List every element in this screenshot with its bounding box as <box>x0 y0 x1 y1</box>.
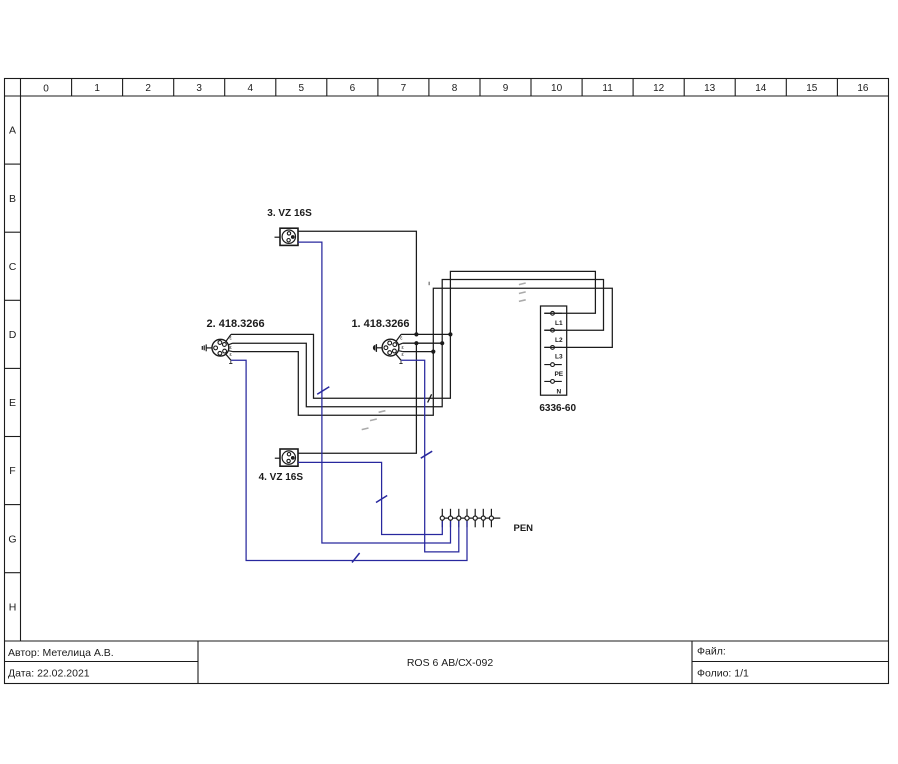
wire connector X1 pin C line <box>403 351 434 353</box>
connector X1 plug symbol <box>373 344 382 352</box>
terminal PE <box>544 363 562 367</box>
svg-text:Автор: Метелица А.В.: Автор: Метелица А.В. <box>8 647 114 659</box>
svg-text:Фолио: 1/1: Фолио: 1/1 <box>697 668 749 680</box>
terminal L3 <box>544 346 562 350</box>
wire neutral connector X2 to PEN (blue) <box>231 360 467 560</box>
svg-text:14: 14 <box>755 83 767 94</box>
svg-text:6: 6 <box>350 83 356 94</box>
wire neutral connector X1 to PEN (blue) <box>401 360 459 552</box>
svg-text:PE: PE <box>554 371 563 378</box>
connector X1 pin stubs <box>396 334 403 360</box>
svg-text:10: 10 <box>551 83 563 94</box>
connector X1 (1. 418.3266) <box>382 339 399 356</box>
terminal N <box>544 380 562 384</box>
svg-text:11: 11 <box>602 83 613 94</box>
svg-text:G: G <box>8 533 16 545</box>
connector X1 tiny pin marks <box>400 336 404 359</box>
socket X4 (4. VZ 16S) <box>275 449 298 466</box>
wire-count slash on X2 neutral <box>352 553 360 563</box>
svg-text:5: 5 <box>299 83 305 94</box>
wire neutral socket X3 to PEN (blue) <box>298 242 451 543</box>
title block texts <box>8 646 749 680</box>
junction node A2 <box>448 332 452 336</box>
svg-text:2: 2 <box>145 83 151 94</box>
drawing frame <box>5 79 889 684</box>
svg-text:H: H <box>9 601 17 613</box>
svg-text:16: 16 <box>857 83 869 94</box>
PEN bus <box>440 509 500 528</box>
connector X2 pin stubs <box>226 334 233 360</box>
svg-text:Дата: 22.02.2021: Дата: 22.02.2021 <box>8 668 90 680</box>
svg-text:L2: L2 <box>555 337 563 344</box>
svg-text:3: 3 <box>196 83 202 94</box>
svg-text:F: F <box>9 465 15 477</box>
wire connector X1 pin A line <box>401 333 450 335</box>
wire phase A: connector X2 to L1 via bottom wrap and X1 junction <box>231 271 595 398</box>
connector X1 pin N mark <box>399 361 402 364</box>
svg-text:C: C <box>9 261 17 273</box>
junction node C1 <box>431 350 435 354</box>
svg-text:6336-60: 6336-60 <box>539 403 576 414</box>
terminal block 6336-60 <box>541 306 567 395</box>
terminal L1 <box>544 311 562 315</box>
junction node B2 <box>440 341 444 345</box>
wire-count slash on X3 neutral <box>317 387 329 395</box>
frame column numbers <box>43 83 869 95</box>
wire socket X4 phase from node (416.4,343.2) <box>298 343 416 453</box>
socket X3 (3. VZ 16S) <box>275 228 299 245</box>
wire phase C: connector X2 to L3 <box>233 288 613 415</box>
svg-text:4. VZ 16S: 4. VZ 16S <box>259 472 304 483</box>
svg-text:B: B <box>9 193 16 205</box>
svg-text:E: E <box>9 397 16 409</box>
svg-text:7: 7 <box>401 83 407 94</box>
stray tick mark near bus corner <box>428 282 430 286</box>
wire-count slash on X1 neutral <box>421 451 432 458</box>
svg-text:4: 4 <box>248 83 254 94</box>
svg-text:13: 13 <box>704 83 716 94</box>
svg-text:A: A <box>9 125 16 137</box>
svg-text:0: 0 <box>43 84 49 95</box>
wire neutral socket X4 to PEN (blue) <box>298 462 442 534</box>
svg-text:15: 15 <box>806 83 818 94</box>
svg-text:3. VZ 16S: 3. VZ 16S <box>267 208 312 219</box>
svg-text:1: 1 <box>94 83 100 94</box>
junction node A1 <box>414 332 418 336</box>
faint slash remnants on bottom wrap <box>362 411 386 430</box>
wire-count slash on X4 neutral <box>376 496 387 503</box>
svg-text:Файл:: Файл: <box>697 646 726 658</box>
junction node B1 <box>414 341 418 345</box>
wire socket X3 phase to node (416.4,334.4) <box>298 231 416 334</box>
svg-text:L3: L3 <box>555 354 563 361</box>
connector X2 cable shield symbol <box>202 344 212 351</box>
wire connector X1 pin B line <box>403 342 443 344</box>
svg-text:2. 418.3266: 2. 418.3266 <box>207 318 265 330</box>
terminal L2 <box>544 328 562 332</box>
connector X2 tiny pin marks <box>230 336 233 359</box>
svg-text:D: D <box>9 329 17 341</box>
connector X2 pin N mark <box>229 361 232 364</box>
connector X2 (2. 418.3266) <box>212 339 229 356</box>
frame row letters <box>8 125 16 614</box>
svg-text:8: 8 <box>452 83 458 94</box>
wire phase B: connector X2 to L2 <box>233 280 604 407</box>
svg-text:N: N <box>556 389 561 396</box>
svg-text:12: 12 <box>653 83 665 94</box>
svg-text:9: 9 <box>503 83 509 94</box>
svg-text:L1: L1 <box>555 320 563 327</box>
faint slash remnants on top bus <box>519 283 526 301</box>
svg-text:PEN: PEN <box>514 523 534 534</box>
title block <box>5 641 889 684</box>
wire-count slash on phase A bottom run <box>428 394 432 402</box>
svg-text:1. 418.3266: 1. 418.3266 <box>351 318 409 330</box>
svg-text:ROS 6 АВ/СХ-092: ROS 6 АВ/СХ-092 <box>407 657 494 669</box>
